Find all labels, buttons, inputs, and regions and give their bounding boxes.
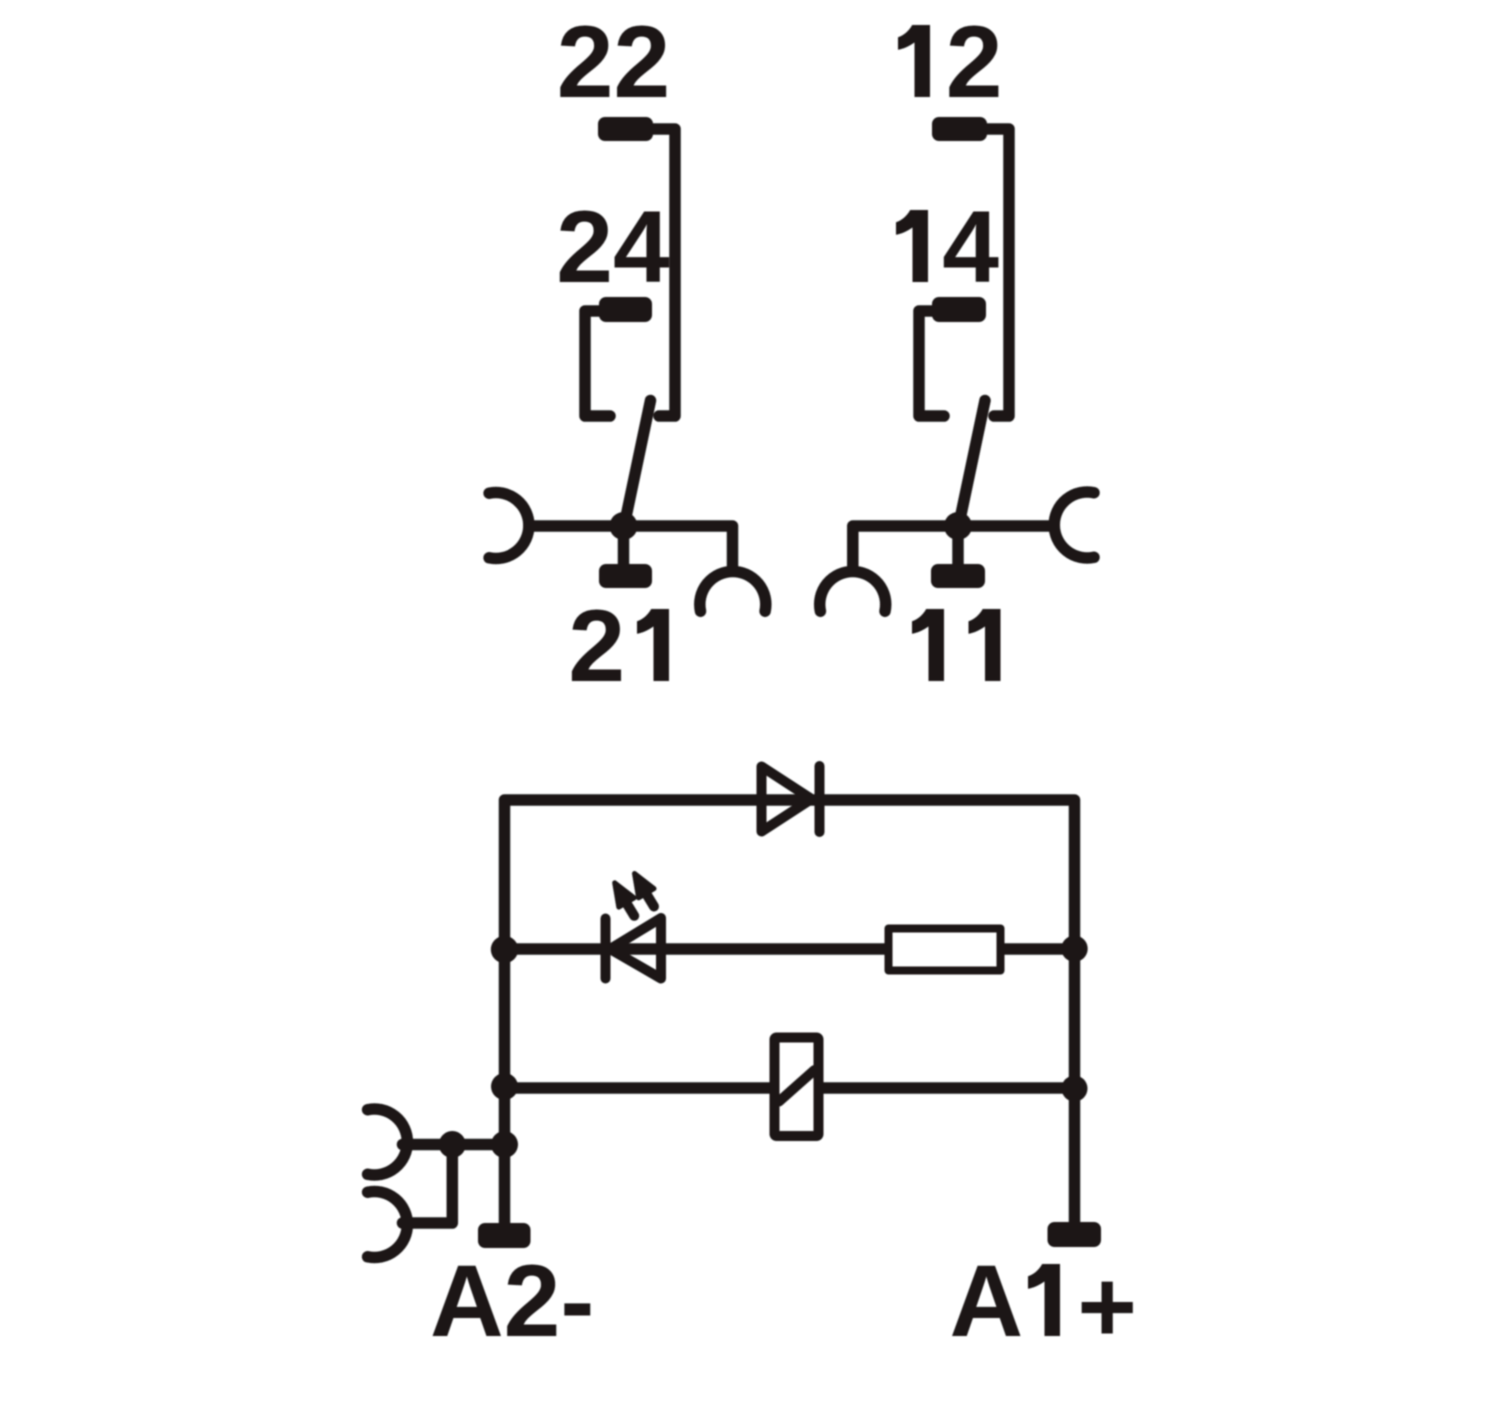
- socket arc right of node 11: [1054, 492, 1094, 558]
- wire pad 24 to NO contact foot: [585, 311, 610, 416]
- svg-text:22: 22: [557, 5, 670, 119]
- terminal pad 24: [599, 297, 652, 322]
- wire pad 22 to NC contact foot: [648, 129, 675, 416]
- junction node left pole common: [610, 512, 638, 540]
- socket arc upper A2: [368, 1109, 408, 1175]
- svg-text:+: +: [1077, 1250, 1137, 1364]
- terminal pad A1: [1048, 1222, 1102, 1247]
- socket arc lower right of node 21: [700, 571, 766, 611]
- wire resistor to right rail: [1003, 943, 1075, 955]
- junction node coil row right: [1062, 1076, 1088, 1102]
- svg-text:A: A: [950, 1244, 1024, 1358]
- wire pad 12 to NC contact foot: [982, 129, 1009, 416]
- LED row wire left: [505, 943, 887, 955]
- terminal label 14: [896, 210, 928, 282]
- junction node coil row left: [491, 1073, 518, 1100]
- wire lower socket to link row: [403, 1150, 453, 1223]
- diode D1 triangle: [762, 767, 812, 832]
- switch arm right pole: [959, 401, 985, 525]
- junction node link row mid: [439, 1131, 466, 1158]
- svg-text:24: 24: [556, 190, 670, 304]
- svg-text:2: 2: [946, 5, 1003, 119]
- junction node right pole common: [944, 512, 972, 540]
- junction node LED row right: [1061, 936, 1087, 962]
- socket arc lower left of node 11: [820, 571, 886, 611]
- diode D1 cathode bar: [815, 766, 825, 832]
- terminal label 12: [898, 25, 930, 97]
- terminal label 11: [912, 609, 944, 681]
- wire node to pad 11: [952, 526, 964, 566]
- svg-text:2: 2: [568, 589, 625, 703]
- wire node to pad 21: [618, 526, 630, 566]
- socket arc left of node 21: [489, 493, 529, 559]
- wire node 21 common rail: [529, 526, 733, 571]
- resistor R1: [889, 929, 1001, 971]
- LED light arrow right: [635, 874, 655, 907]
- LED cathode bar: [601, 919, 611, 979]
- relay coil diagonal: [779, 1070, 815, 1102]
- terminal pad A2: [478, 1223, 531, 1248]
- coil row wire left: [505, 1082, 772, 1094]
- socket arc lower A2: [368, 1192, 408, 1258]
- relay coil box: [775, 1038, 819, 1137]
- terminal pad 12: [932, 117, 987, 141]
- junction node LED row left: [491, 936, 518, 963]
- terminal pad 14: [932, 297, 986, 322]
- terminal pad 21: [599, 564, 652, 588]
- terminal pad 22: [598, 117, 653, 141]
- wire node 11 common rail: [853, 526, 1054, 571]
- LED triangle: [610, 918, 661, 979]
- wire pad 14 to NO contact foot: [919, 311, 944, 416]
- wire main loop A2 to A1: [505, 800, 1075, 1223]
- junction node link row at rail: [491, 1131, 518, 1158]
- link row wire: [403, 1139, 505, 1151]
- svg-text:4: 4: [942, 190, 999, 304]
- svg-text:A2-: A2-: [430, 1244, 594, 1358]
- terminal pad 11: [931, 564, 985, 588]
- coil row wire right: [823, 1082, 1075, 1094]
- LED light arrow left: [615, 883, 635, 916]
- switch arm left pole: [625, 401, 651, 525]
